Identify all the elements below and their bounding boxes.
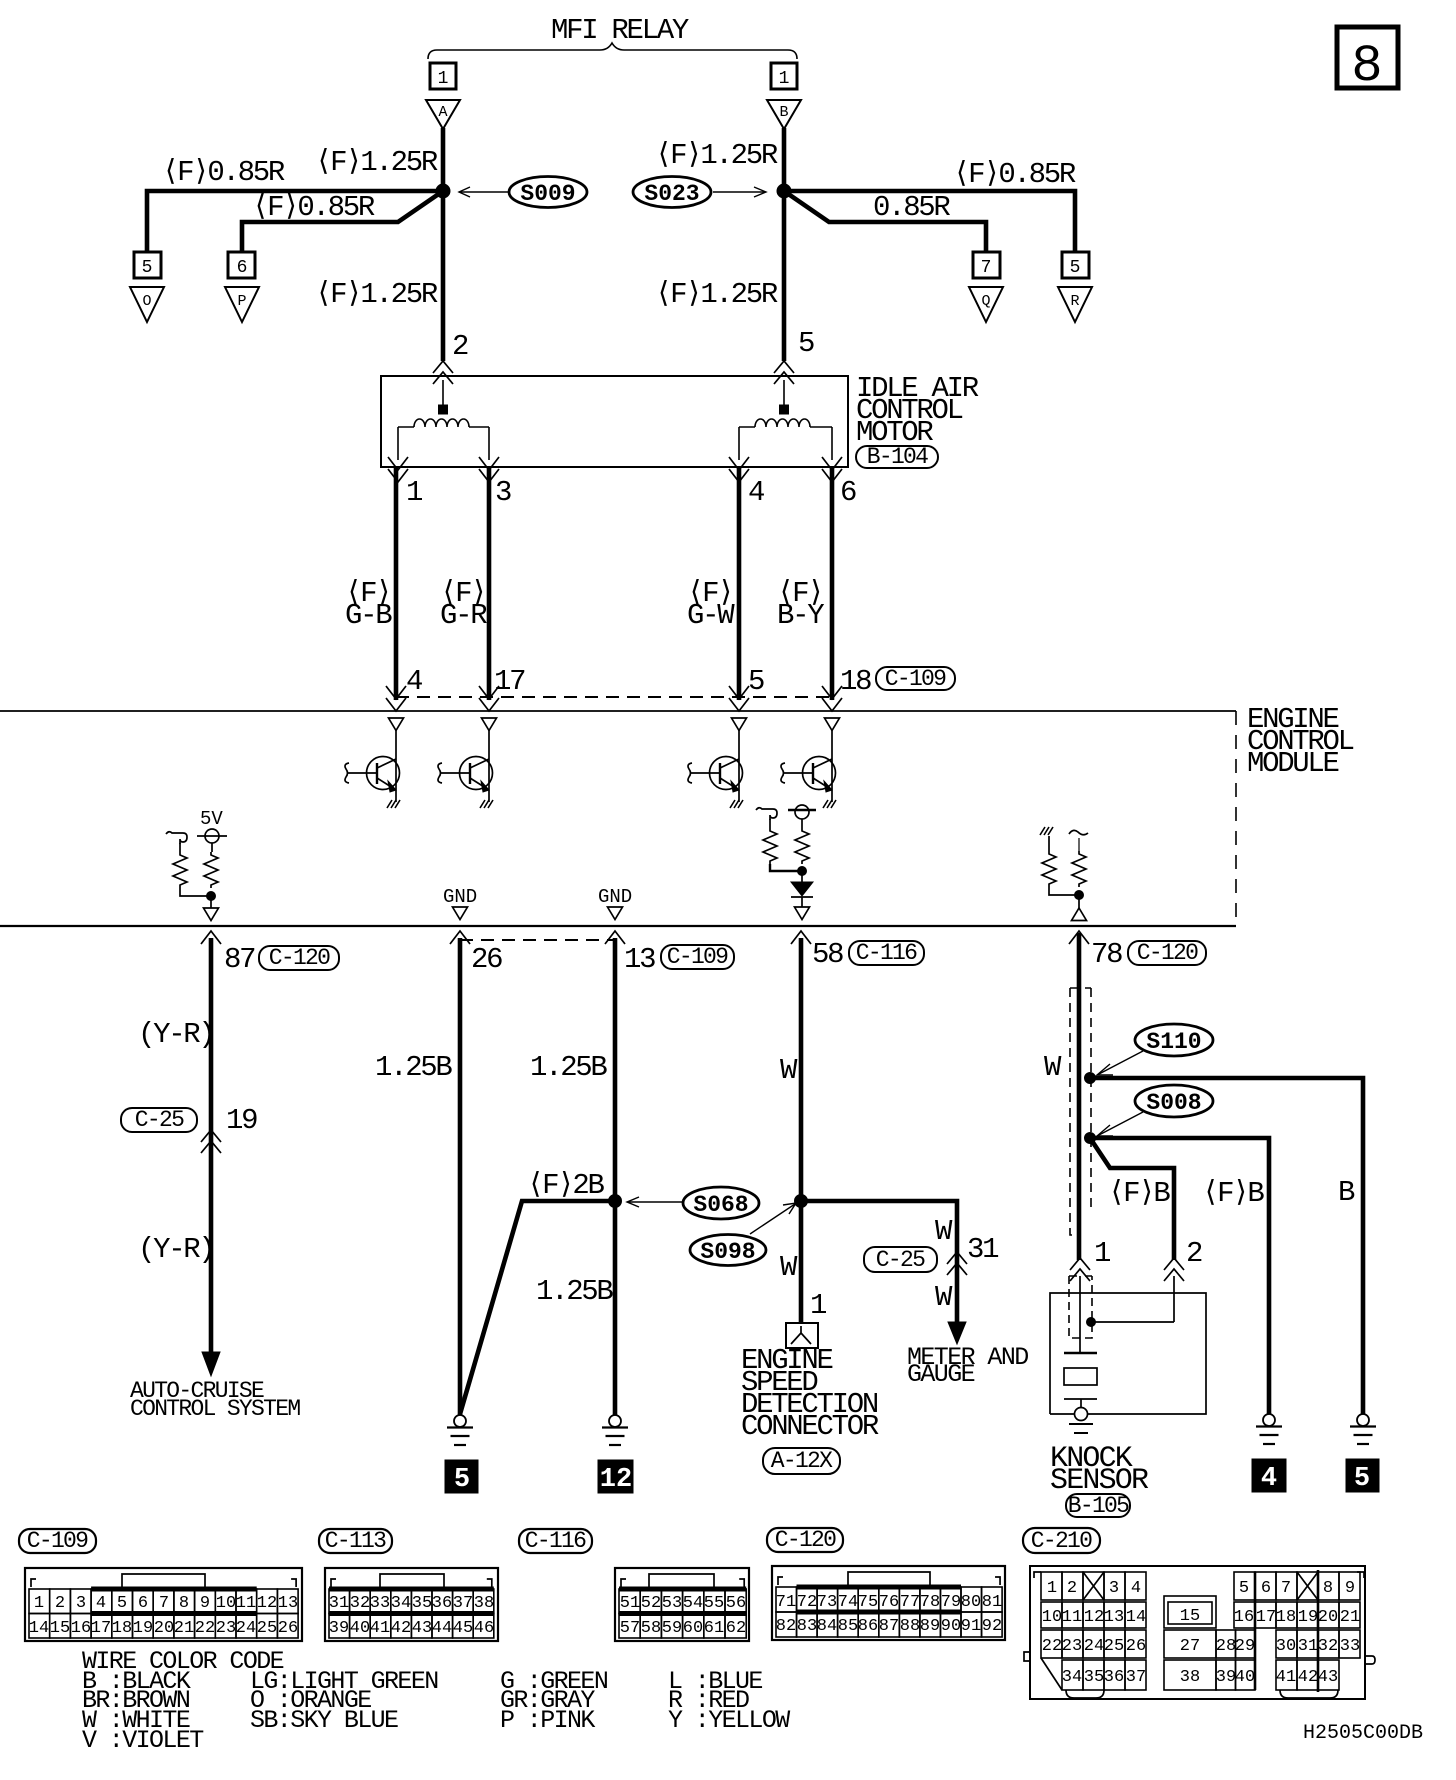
ECM box top edge xyxy=(0,710,1236,712)
svg-text:76: 76 xyxy=(879,1593,899,1612)
svg-text:91: 91 xyxy=(961,1617,981,1636)
svg-text:56: 56 xyxy=(726,1594,746,1613)
wire R3 bottom elbow to node xyxy=(770,864,802,871)
svg-text:C-113: C-113 xyxy=(325,1528,386,1554)
pin13 exit chevron xyxy=(605,931,625,944)
svg-text:55: 55 xyxy=(704,1594,724,1613)
connector ref C-120 (78) xyxy=(1128,941,1206,965)
C-210 keyway X left xyxy=(1083,1572,1104,1600)
connector C-113 pin grid xyxy=(329,1589,494,1638)
svg-text:6: 6 xyxy=(1261,1579,1271,1598)
svg-text:77: 77 xyxy=(900,1593,920,1612)
pin 6 exit double chevron xyxy=(822,457,842,482)
connector C-116 housing xyxy=(615,1568,749,1641)
svg-text:71: 71 xyxy=(776,1593,796,1612)
svg-text:43: 43 xyxy=(1318,1668,1338,1687)
svg-text:83: 83 xyxy=(797,1617,817,1636)
C-210 row1 left cells 1,2,3,4 xyxy=(1041,1572,1146,1600)
splice S009 oval xyxy=(509,177,587,208)
svg-text:89: 89 xyxy=(920,1617,940,1636)
C-210 row2 cells 10-14 xyxy=(1041,1602,1146,1628)
ECM pad triangle pin26 xyxy=(453,907,468,920)
svg-text:34: 34 xyxy=(391,1594,411,1613)
svg-text:(Y-R): (Y-R) xyxy=(138,1233,214,1266)
svg-text:10: 10 xyxy=(216,1594,236,1613)
pin 5 entry double chevron xyxy=(774,361,794,384)
svg-text:39: 39 xyxy=(329,1619,349,1638)
5V source circle xyxy=(205,829,219,843)
pin 3 exit double chevron xyxy=(479,457,499,482)
svg-text:H2505C00DB: H2505C00DB xyxy=(1303,1722,1423,1745)
C-210 row3 cells 30-33 xyxy=(1276,1630,1360,1658)
svg-text:2: 2 xyxy=(1186,1237,1202,1270)
svg-text:GND: GND xyxy=(598,886,632,908)
wire 87 (Y-R) down xyxy=(209,938,214,1355)
resistor R1 xyxy=(173,852,187,888)
connector C-116 shade bars xyxy=(619,1587,746,1592)
svg-text:27: 27 xyxy=(1180,1637,1200,1656)
ground (26) xyxy=(447,1415,473,1445)
knock sensor box B-105 xyxy=(1050,1293,1206,1414)
wire: coil L2 right end down xyxy=(831,427,833,460)
svg-text:53: 53 xyxy=(662,1594,682,1613)
wire: triangle A down to IACM pin 2 xyxy=(441,128,446,361)
resistor R3 xyxy=(763,828,777,864)
svg-text:60: 60 xyxy=(683,1619,703,1638)
C-210 cell 27 xyxy=(1164,1630,1216,1658)
pin26 exit chevron xyxy=(450,931,470,944)
svg-text:16: 16 xyxy=(1234,1608,1254,1627)
svg-text:19: 19 xyxy=(133,1619,153,1638)
case ground circle xyxy=(1075,1408,1088,1421)
svg-text:41: 41 xyxy=(1276,1668,1296,1687)
svg-text:16: 16 xyxy=(71,1619,91,1638)
wire 78 (W) down to knock sensor pin 1 xyxy=(1077,933,1082,1260)
svg-text:34: 34 xyxy=(1062,1668,1082,1687)
svg-text:59: 59 xyxy=(662,1619,682,1638)
connector ref C-109 xyxy=(876,667,955,690)
wire R5 bottom elbow to node xyxy=(1049,887,1079,895)
svg-text:R: R xyxy=(1070,293,1079,310)
node S008 junction dot xyxy=(1085,1133,1096,1144)
svg-text:24: 24 xyxy=(1084,1637,1104,1656)
shield dashed stub inside knock sensor xyxy=(1069,1276,1092,1338)
wire: junction A left to terminal 5 xyxy=(147,191,443,253)
resistor R4 xyxy=(795,828,809,864)
svg-text:31: 31 xyxy=(1298,1637,1318,1656)
resistor R2 (87 pullup) xyxy=(204,852,218,888)
svg-text:C-116: C-116 xyxy=(856,940,917,966)
pin78 exit chevron xyxy=(1069,931,1089,944)
splice S023 oval xyxy=(633,177,711,208)
ECM box right edge xyxy=(1235,711,1237,926)
svg-text:22: 22 xyxy=(1042,1637,1062,1656)
svg-text:GAUGE: GAUGE xyxy=(907,1360,975,1389)
19 entry double chevron xyxy=(201,1130,221,1153)
connector C-120 housing xyxy=(772,1566,1005,1640)
wire: junction B right to terminal 5 xyxy=(784,191,1075,253)
svg-text:15: 15 xyxy=(50,1619,70,1638)
svg-text:MODULE: MODULE xyxy=(1247,747,1339,780)
svg-text:A: A xyxy=(438,104,447,121)
C-210 row1 right cells 5,6,7,8,9 xyxy=(1234,1572,1360,1600)
knock pin 1 double chevron xyxy=(1070,1258,1090,1281)
svg-text:13: 13 xyxy=(278,1594,298,1613)
svg-text:⟨F⟩1.25R: ⟨F⟩1.25R xyxy=(655,278,778,311)
svg-text:G-W: G-W xyxy=(687,599,735,632)
svg-text:44: 44 xyxy=(432,1619,452,1638)
dashed connector line C-109 xyxy=(396,696,832,698)
terminal box 7 xyxy=(973,252,1000,278)
ground ref box 5 xyxy=(1346,1459,1379,1492)
C-210 keyway X right xyxy=(1297,1572,1318,1600)
pin5 entry double chevron xyxy=(729,686,749,711)
sensor element rect xyxy=(1064,1368,1097,1385)
svg-text:19: 19 xyxy=(1298,1608,1318,1627)
svg-text:1: 1 xyxy=(34,1594,44,1613)
svg-text:11: 11 xyxy=(236,1594,256,1613)
connector ref C-116 xyxy=(849,941,924,965)
svg-text:4: 4 xyxy=(1131,1579,1141,1598)
connector C-210 housing xyxy=(1030,1566,1365,1699)
svg-text:39: 39 xyxy=(1216,1668,1236,1687)
wire: junction B diagonal to terminal 7 xyxy=(784,191,986,253)
svg-text:A-12X: A-12X xyxy=(771,1448,833,1474)
connector ref label C-116 xyxy=(519,1529,592,1553)
svg-text:17: 17 xyxy=(1256,1608,1276,1627)
pin18 entry double chevron xyxy=(822,686,842,711)
wire shield to pin2 xyxy=(1091,1321,1174,1323)
ground ref box 12 xyxy=(598,1460,633,1493)
svg-text:1: 1 xyxy=(1094,1237,1110,1270)
svg-text:0.85R: 0.85R xyxy=(873,191,950,224)
C-210 diagonal xyxy=(1041,1658,1062,1690)
svg-text:86: 86 xyxy=(858,1617,878,1636)
svg-text:20: 20 xyxy=(1318,1608,1338,1627)
curl lead (58 col) xyxy=(756,808,777,820)
svg-text:40: 40 xyxy=(350,1619,370,1638)
connector C-120 pin grid xyxy=(776,1587,1002,1637)
svg-text:36: 36 xyxy=(432,1594,452,1613)
svg-text:1: 1 xyxy=(1047,1579,1057,1598)
wire 26 (1.25B) down to ground xyxy=(458,938,463,1415)
svg-text:15: 15 xyxy=(1180,1607,1200,1626)
svg-text:42: 42 xyxy=(391,1619,411,1638)
svg-text:90: 90 xyxy=(941,1617,961,1636)
svg-text:87: 87 xyxy=(224,943,255,976)
svg-text:5V: 5V xyxy=(200,808,223,830)
C-210 row4 cells 34-37 xyxy=(1062,1660,1146,1690)
svg-text:29: 29 xyxy=(1235,1637,1255,1656)
svg-text:CONNECTOR: CONNECTOR xyxy=(741,1410,879,1443)
C-210 row4 cells 41-43 xyxy=(1276,1660,1339,1690)
connector ref C-25 (31) xyxy=(864,1247,937,1272)
wire: triangle B down to IACM pin 5 xyxy=(782,128,787,361)
wire source to resistor R4 xyxy=(801,819,803,828)
node S023 junction dot xyxy=(777,184,791,198)
svg-text:5: 5 xyxy=(142,258,153,278)
connector ref C-25 xyxy=(121,1108,197,1132)
terminal box 1 (left, relay pin A) xyxy=(430,63,456,89)
svg-text:S023: S023 xyxy=(644,181,699,207)
curl lead left resistor xyxy=(166,832,187,844)
node S009 junction dot xyxy=(436,184,450,198)
svg-text:G-B: G-B xyxy=(345,599,392,632)
svg-text:74: 74 xyxy=(838,1593,858,1612)
connector C-113 housing xyxy=(325,1568,498,1641)
terminal box 5 (right) xyxy=(1062,252,1089,278)
C-210 cell 15 xyxy=(1164,1596,1216,1628)
svg-text:B-104: B-104 xyxy=(867,444,928,470)
svg-text:79: 79 xyxy=(941,1593,961,1612)
connector ref label C-210 xyxy=(1023,1528,1100,1553)
svg-text:46: 46 xyxy=(474,1619,494,1638)
svg-text:80: 80 xyxy=(961,1593,981,1612)
svg-text:(Y-R): (Y-R) xyxy=(138,1018,214,1051)
ECM pad triangle pin78 (up) xyxy=(1072,908,1087,921)
ground hatch (78 col) xyxy=(1040,827,1053,835)
C-210 row3 cells 28,29 xyxy=(1216,1630,1255,1658)
svg-text:5: 5 xyxy=(1239,1579,1249,1598)
svg-text:35: 35 xyxy=(1084,1668,1104,1687)
wire 58 (W) down xyxy=(799,938,804,1324)
svg-text:2: 2 xyxy=(55,1594,65,1613)
svg-text:4: 4 xyxy=(96,1594,106,1613)
wire (F)B to ground 4 xyxy=(1090,1138,1269,1414)
pin87 exit chevron xyxy=(201,931,221,944)
pin 4 exit double chevron xyxy=(729,457,749,482)
wire plate to case circle xyxy=(1080,1399,1082,1408)
arrow S023 to junction xyxy=(713,191,765,193)
svg-text:⟨F⟩B: ⟨F⟩B xyxy=(1202,1177,1264,1210)
svg-text:S008: S008 xyxy=(1146,1090,1201,1116)
connector C-113 shade bars xyxy=(329,1587,494,1592)
wire curl to resistor R3 xyxy=(769,819,771,828)
svg-text:8: 8 xyxy=(1323,1579,1333,1598)
terminal box 6 xyxy=(228,252,255,278)
svg-text:26: 26 xyxy=(278,1619,298,1638)
svg-text:9: 9 xyxy=(1345,1579,1355,1598)
svg-text:S098: S098 xyxy=(700,1239,755,1265)
wire hatch to resistor R5 xyxy=(1048,836,1050,851)
svg-text:⟨F⟩1.25R: ⟨F⟩1.25R xyxy=(315,146,438,179)
svg-text:O: O xyxy=(142,293,151,310)
connector C-120 tab xyxy=(848,1572,930,1588)
svg-text:⟨F⟩B: ⟨F⟩B xyxy=(1108,1177,1170,1210)
svg-text:21: 21 xyxy=(174,1619,194,1638)
case ground lines xyxy=(1069,1423,1093,1425)
wire: IACM pin6 to ECM pin18 xyxy=(830,468,835,700)
svg-text:⟨F⟩1.25R: ⟨F⟩1.25R xyxy=(315,278,438,311)
connector ref label C-109 xyxy=(19,1529,96,1553)
svg-text:B: B xyxy=(779,104,788,121)
svg-text:35: 35 xyxy=(412,1594,432,1613)
svg-text:4: 4 xyxy=(406,665,422,698)
splice S110 oval xyxy=(1135,1024,1213,1056)
svg-text:87: 87 xyxy=(879,1617,899,1636)
svg-text:1.25B: 1.25B xyxy=(536,1275,613,1308)
svg-text:GND: GND xyxy=(443,886,477,908)
terminal triangle A xyxy=(426,100,460,129)
wire: coil L1 right end down xyxy=(488,427,490,460)
svg-text:7: 7 xyxy=(1281,1579,1291,1598)
connector ref C-109 xyxy=(661,945,734,969)
svg-text:1: 1 xyxy=(438,69,449,89)
svg-text:45: 45 xyxy=(453,1619,473,1638)
svg-text:C-210: C-210 xyxy=(1031,1528,1092,1554)
splice S068 oval xyxy=(683,1187,759,1219)
svg-text:P :PINK: P :PINK xyxy=(500,1706,595,1735)
svg-text:3: 3 xyxy=(1109,1579,1119,1598)
svg-text:52: 52 xyxy=(641,1594,661,1613)
diode D1 xyxy=(801,871,803,882)
arrowhead to meter and gauge xyxy=(948,1322,966,1344)
coil tap square (right coil) xyxy=(780,405,789,414)
svg-text:MFI RELAY: MFI RELAY xyxy=(551,14,689,47)
connector C-116 pin grid xyxy=(619,1589,746,1638)
svg-text:C-109: C-109 xyxy=(27,1528,88,1554)
wire (F)2B horizontal+diagonal to ground xyxy=(460,1201,615,1414)
svg-text:25: 25 xyxy=(257,1619,277,1638)
ECM pad triangle pin4 xyxy=(389,718,404,731)
svg-text:1: 1 xyxy=(406,476,422,509)
ground ref box 4 xyxy=(1252,1459,1286,1492)
svg-text:2: 2 xyxy=(1067,1579,1077,1598)
svg-text:72: 72 xyxy=(797,1593,817,1612)
svg-text:13: 13 xyxy=(1104,1608,1124,1627)
node 58/31 junction dot xyxy=(795,1195,808,1208)
svg-text:C-120: C-120 xyxy=(775,1527,836,1553)
svg-text:5: 5 xyxy=(748,665,764,698)
svg-text:9: 9 xyxy=(200,1594,210,1613)
svg-text:6: 6 xyxy=(138,1594,148,1613)
svg-text:12: 12 xyxy=(257,1594,277,1613)
svg-text:42: 42 xyxy=(1298,1668,1318,1687)
svg-text:1.25B: 1.25B xyxy=(375,1051,452,1084)
connector ref B-104 xyxy=(856,446,938,468)
svg-text:36: 36 xyxy=(1104,1668,1124,1687)
svg-text:19: 19 xyxy=(226,1104,257,1137)
ground (5 right) xyxy=(1350,1414,1376,1444)
wire R1 bottom elbow to node xyxy=(180,888,211,896)
svg-text:5: 5 xyxy=(1070,258,1081,278)
wire tilde to resistor R6 xyxy=(1078,838,1080,851)
terminal box 1 (right, relay pin B) xyxy=(771,63,797,89)
svg-text:17: 17 xyxy=(494,665,525,698)
svg-text:C-120: C-120 xyxy=(1137,940,1198,966)
svg-text:V :VIOLET: V :VIOLET xyxy=(82,1726,204,1755)
wire node to pad xyxy=(1078,895,1080,908)
svg-text:10: 10 xyxy=(1042,1608,1062,1627)
svg-text:54: 54 xyxy=(683,1594,703,1613)
svg-text:B-Y: B-Y xyxy=(777,599,824,632)
svg-text:61: 61 xyxy=(704,1619,724,1638)
ECM pad triangle pin87 xyxy=(204,908,219,921)
ECM pad triangle pin18 xyxy=(825,718,840,731)
svg-text:C-116: C-116 xyxy=(525,1528,586,1554)
connector C-116 tab xyxy=(649,1574,714,1590)
sensor element bottom plate xyxy=(1064,1398,1097,1400)
pin 2 entry double chevron xyxy=(433,361,453,384)
page number 8 box xyxy=(1337,27,1398,88)
pin58 exit chevron xyxy=(791,931,811,944)
svg-text:5: 5 xyxy=(1354,1464,1370,1494)
connector ref A-12X xyxy=(763,1448,840,1474)
svg-text:SB:SKY BLUE: SB:SKY BLUE xyxy=(250,1706,398,1735)
connector C-109 pin grid xyxy=(29,1589,298,1638)
wire: IACM pin4 to ECM pin5 xyxy=(737,468,742,700)
svg-text:51: 51 xyxy=(620,1594,640,1613)
svg-text:30: 30 xyxy=(1276,1637,1296,1656)
svg-text:25: 25 xyxy=(1104,1637,1124,1656)
wire B to ground 5 xyxy=(1090,1078,1363,1414)
svg-text:78: 78 xyxy=(1091,938,1122,971)
connector C-120 shade bars xyxy=(797,1585,962,1590)
arrow S098 to 58 junction xyxy=(750,1204,795,1234)
node 87 junction dot xyxy=(207,892,216,901)
ground (13) xyxy=(602,1415,628,1445)
C-210 row2 cells 16,17 xyxy=(1234,1602,1276,1628)
svg-text:B-105: B-105 xyxy=(1068,1493,1129,1519)
svg-text:23: 23 xyxy=(216,1619,236,1638)
svg-text:C-25: C-25 xyxy=(135,1107,184,1133)
brace under MFI RELAY xyxy=(428,43,797,59)
wire: junction A diagonal to terminal 6 xyxy=(242,191,443,253)
ground (4) xyxy=(1256,1414,1282,1444)
svg-text:31: 31 xyxy=(329,1594,349,1613)
svg-text:6: 6 xyxy=(840,476,856,509)
ground ref box 5 xyxy=(445,1460,478,1493)
coil L1 (left half winding) xyxy=(398,419,489,427)
svg-text:37: 37 xyxy=(453,1594,473,1613)
wire to meter and gauge xyxy=(801,1201,957,1324)
ECM pad triangle pin17 xyxy=(482,718,497,731)
svg-text:88: 88 xyxy=(900,1617,920,1636)
wire curl to resistor R1 xyxy=(179,843,181,852)
node S110 junction dot xyxy=(1085,1073,1096,1084)
svg-text:26: 26 xyxy=(1126,1637,1146,1656)
svg-text:32: 32 xyxy=(350,1594,370,1613)
svg-text:C-120: C-120 xyxy=(269,945,330,971)
svg-text:G-R: G-R xyxy=(440,599,487,632)
svg-text:37: 37 xyxy=(1126,1668,1146,1687)
svg-text:20: 20 xyxy=(154,1619,174,1638)
resistor R6 xyxy=(1072,851,1086,887)
svg-text:38: 38 xyxy=(1180,1668,1200,1687)
C-210 feet xyxy=(1066,1690,1104,1698)
splice S008 oval xyxy=(1135,1085,1213,1117)
svg-text:P: P xyxy=(237,293,246,310)
svg-text:92: 92 xyxy=(982,1617,1002,1636)
svg-text:C-109: C-109 xyxy=(885,666,946,692)
svg-text:5: 5 xyxy=(454,1465,470,1495)
wire 13 (1.25B) down to ground xyxy=(613,938,618,1415)
svg-text:⟨F⟩0.85R: ⟨F⟩0.85R xyxy=(953,158,1076,191)
svg-text:CONTROL SYSTEM: CONTROL SYSTEM xyxy=(130,1396,300,1422)
svg-text:S068: S068 xyxy=(693,1192,748,1218)
arrow S068 to junction xyxy=(628,1201,683,1203)
connector C-109 tab xyxy=(122,1574,205,1590)
sensor element top plate xyxy=(1064,1352,1097,1355)
connector C-109 shade bars xyxy=(91,1587,257,1592)
pin17 entry double chevron xyxy=(479,686,499,711)
svg-text:8: 8 xyxy=(179,1594,189,1613)
svg-text:31: 31 xyxy=(967,1233,998,1266)
svg-text:38: 38 xyxy=(474,1594,494,1613)
shield dashed box (78 wire) xyxy=(1070,987,1091,989)
connector ref C-120 xyxy=(259,946,339,970)
svg-text:S110: S110 xyxy=(1146,1029,1201,1055)
